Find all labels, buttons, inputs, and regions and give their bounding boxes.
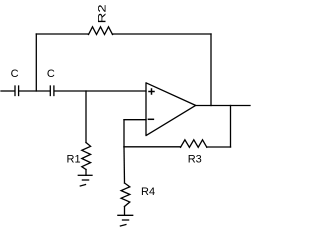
ground below R4 — [118, 215, 133, 226]
capacitor C1 — [11, 68, 19, 96]
wire corner up to output wire — [230, 106, 232, 148]
svg-text:R2: R2 — [96, 4, 108, 23]
wire feedback node down to R4 — [123, 147, 126, 183]
wire feedback branch vertical up at node between capacitors — [35, 34, 37, 91]
capacitor C2 — [47, 68, 55, 96]
resistor R4 — [121, 183, 155, 207]
wire R4 to ground — [124, 207, 126, 216]
wire op-amp minus input jog left — [124, 119, 146, 121]
wire right vertical down to output node — [210, 34, 212, 106]
resistor R3 — [181, 140, 207, 166]
wire top left segment — [36, 33, 88, 35]
svg-text:C: C — [47, 68, 55, 80]
wire feedback node to R3 left — [124, 146, 181, 148]
resistor R2 — [89, 4, 113, 34]
op-amp U1 — [146, 83, 196, 136]
wire input stub — [1, 90, 15, 92]
wire vertical from minus input down to feedback node — [123, 120, 125, 147]
svg-text:R1: R1 — [67, 154, 81, 166]
wire top right segment — [113, 33, 212, 35]
svg-text:R3: R3 — [188, 154, 202, 166]
wire output — [196, 105, 250, 107]
wire R3 right to corner — [207, 146, 231, 148]
ground below R1 — [78, 175, 92, 186]
svg-text:C: C — [11, 68, 19, 80]
wire between C1 and C2 — [19, 90, 50, 92]
svg-text:R4: R4 — [141, 186, 155, 198]
resistor R1 — [67, 143, 91, 170]
wire plus-node branch down to R1 — [85, 91, 87, 143]
wire C2 to op-amp plus input with junction to R1 — [55, 90, 147, 92]
wire R1 to ground — [85, 170, 87, 176]
